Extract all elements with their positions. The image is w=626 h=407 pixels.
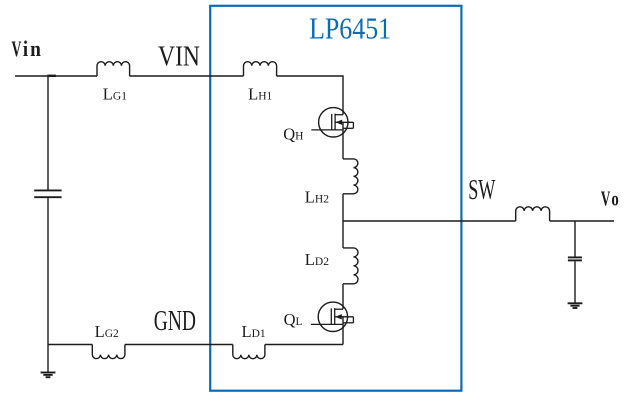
wire LH1 to QH drain corner	[277, 76, 343, 115]
svg-text:QL: QL	[284, 310, 303, 329]
wire GND rail left segment	[48, 344, 92, 346]
inductor LG1	[97, 62, 130, 76]
transistor QL	[311, 302, 354, 331]
ground right	[568, 303, 583, 308]
IC boundary box LP6451	[210, 6, 461, 391]
wire QL source to GND rail	[342, 317, 344, 345]
wire input left vertical upper	[47, 76, 49, 190]
wire output cap vertical lower	[574, 261, 576, 303]
ground left	[41, 373, 56, 378]
capacitor Cin	[34, 190, 61, 197]
svg-text:n: n	[30, 36, 41, 61]
svg-text:LD1: LD1	[242, 322, 266, 341]
svg-text:LD2: LD2	[305, 250, 329, 269]
inductor Lo output	[516, 207, 550, 221]
wire LD2 to QL drain	[342, 284, 344, 309]
svg-text:LH2: LH2	[305, 188, 329, 207]
junction tick at Vin node	[47, 75, 56, 77]
svg-text:LG1: LG1	[103, 85, 127, 104]
wire output cap vertical upper	[574, 221, 576, 257]
node Vin label	[12, 36, 41, 61]
svg-text:VIN: VIN	[158, 40, 200, 72]
inductor LD2	[343, 248, 358, 284]
wire LG2 to LD1	[125, 344, 233, 346]
wire Lo to Vo	[550, 220, 614, 222]
svg-text:V: V	[601, 186, 611, 210]
node Vo label	[601, 186, 619, 210]
svg-text:QH: QH	[283, 124, 303, 143]
svg-text:SW: SW	[468, 174, 496, 206]
wire SW node to output	[343, 220, 516, 222]
inductor LG2	[92, 345, 125, 359]
wire QH source to LH2	[342, 122, 344, 159]
wire LG1 to LH1 (VIN)	[130, 75, 244, 77]
inductor LD1	[233, 345, 265, 359]
svg-text:LG2: LG2	[95, 322, 119, 341]
wire LH2 to LD2 (SW node)	[342, 194, 344, 248]
svg-text:LP6451: LP6451	[309, 11, 391, 46]
svg-text:V: V	[12, 36, 22, 61]
wire LD1 to QL	[265, 344, 343, 346]
wire top rail Vin to LG1	[15, 75, 97, 77]
transistor QH	[311, 108, 353, 137]
capacitor Co	[568, 257, 582, 260]
inductor LH2	[343, 159, 358, 194]
svg-text:LH1: LH1	[248, 85, 272, 104]
inductor LH1	[244, 62, 277, 76]
svg-text:GND: GND	[154, 305, 196, 337]
wire input left vertical lower	[47, 198, 49, 372]
svg-text:i: i	[23, 36, 28, 61]
svg-text:o: o	[611, 186, 618, 210]
